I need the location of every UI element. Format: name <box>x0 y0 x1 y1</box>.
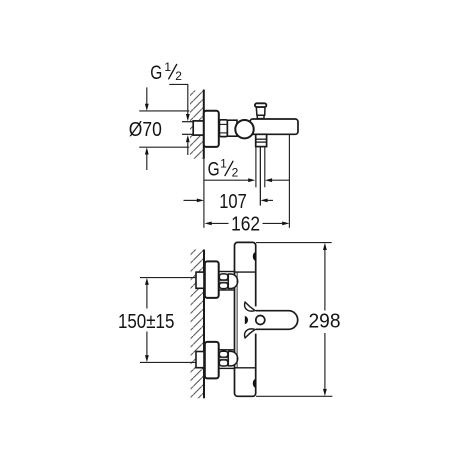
shower outlet tube walls <box>255 147 257 188</box>
G 1/2 right drop line with arrow to pipe <box>187 84 189 114</box>
bottom handle grip notch <box>253 379 256 388</box>
svg-text:107: 107 <box>219 191 247 213</box>
tube centerline extension <box>259 147 261 206</box>
150 dimension upper extension line (hot supply) <box>140 277 196 279</box>
G 1/2 lower dimension line with arrows at tube <box>204 179 248 181</box>
thermostat handle circle (side view) <box>235 120 253 138</box>
svg-text:2: 2 <box>175 69 182 83</box>
connector sleeve between nut and handle <box>227 120 237 136</box>
150 dimension lower extension line (cold supply) <box>140 361 196 363</box>
svg-text:1: 1 <box>164 60 171 74</box>
bar internal line below top handle <box>235 271 256 273</box>
svg-text:G: G <box>208 159 220 181</box>
wall face line (top view) <box>203 250 205 399</box>
298 dimension line and arrows <box>323 243 327 250</box>
298 top extension line <box>256 242 332 244</box>
patch hiding bar edge behind spout <box>254 306 258 333</box>
lower union dome check valve <box>228 351 237 366</box>
G 1/2 top leader underline <box>169 83 188 85</box>
G 1/2 left drop line with arrow <box>146 87 148 104</box>
150±15 dimension line and arrows <box>145 278 149 285</box>
mixer body bar (top view) <box>235 242 256 396</box>
svg-text:162: 162 <box>231 214 260 236</box>
diverter knob taper <box>256 107 265 115</box>
diverter knob cap <box>255 103 267 107</box>
svg-text:150±15: 150±15 <box>118 311 175 333</box>
svg-text:Ø70: Ø70 <box>129 119 162 141</box>
Ø70 top extension line <box>139 110 189 112</box>
concealed union square lower <box>196 352 204 368</box>
bar inner left line (middle section) <box>236 272 238 368</box>
Ø70 lower dimension arrow <box>145 147 149 154</box>
Ø70 bottom extension line <box>139 146 189 148</box>
escutcheon flange lower (top view) <box>205 342 219 379</box>
upper union dome check valve <box>228 274 237 289</box>
escutcheon flange (side view) <box>204 111 219 147</box>
concealed union square upper <box>196 272 204 288</box>
escutcheon flange upper (top view) <box>205 261 219 298</box>
shower outlet block below body <box>256 134 267 146</box>
spout lower leaf <box>245 329 255 338</box>
G 1/2 lower arrow pointing up at pipe bottom <box>186 135 190 142</box>
298 bottom extension line <box>256 395 332 397</box>
wall hatching (side view) <box>190 91 203 159</box>
svg-text:2: 2 <box>232 166 239 180</box>
lower union outer lines <box>219 349 235 351</box>
extension line at x=289.4 for 162 dimension <box>288 135 290 228</box>
wall hatching (top view) <box>191 250 203 399</box>
union nut (side view) <box>219 120 227 137</box>
top handle grip notch <box>253 252 256 261</box>
diverter knob circle (top view) <box>256 316 265 325</box>
svg-text:G: G <box>150 62 162 84</box>
wall face extension line down to 162 dimension <box>203 159 205 228</box>
bar internal line above bottom handle <box>235 367 256 369</box>
upper union outer lines <box>219 271 235 273</box>
svg-text:298: 298 <box>309 311 341 333</box>
concealed union square in wall <box>193 121 204 135</box>
lower union nut lobes <box>219 351 228 357</box>
wall face line (side view) <box>203 90 205 159</box>
107 dimension row <box>184 199 198 201</box>
supply pipe in wall (two lines) <box>182 121 194 123</box>
spout inlet blob <box>245 316 248 324</box>
mixer body (side view) <box>250 119 298 134</box>
162 dimension row <box>205 222 212 226</box>
diverter knob neck <box>257 115 264 118</box>
spout upper leaf <box>245 302 255 311</box>
spout tube (top view) <box>256 311 298 330</box>
svg-text:1: 1 <box>220 157 227 171</box>
upper union nut lobes <box>219 274 228 280</box>
